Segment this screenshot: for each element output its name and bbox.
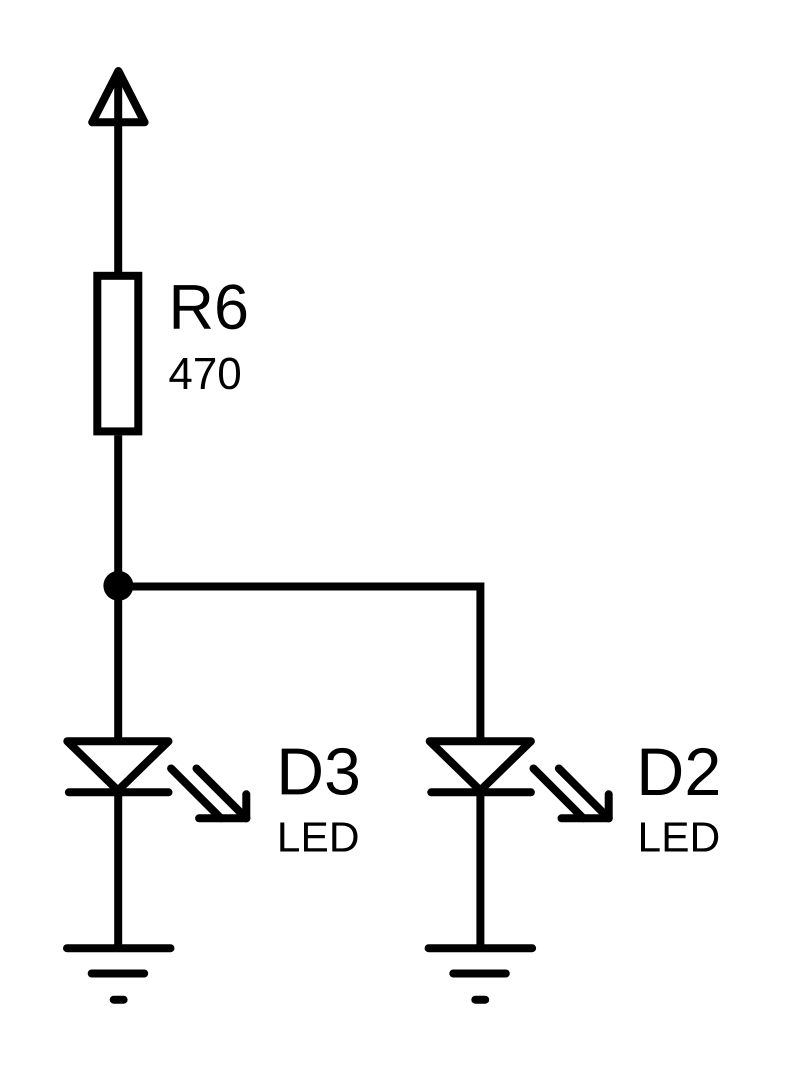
LED D3 triangle: [67, 741, 168, 790]
wire horizontal from junction to D2 branch: [118, 583, 480, 591]
wire from resistor to LED D3 anode: [114, 435, 122, 741]
LED D3 cathode bar: [69, 788, 169, 796]
label D2: [642, 748, 718, 795]
value 470: [169, 358, 240, 390]
label R6: [174, 284, 247, 329]
ground symbol (D2): [429, 948, 532, 1000]
label LED (D3): [280, 823, 357, 852]
wire vertical down to LED D2 anode: [476, 583, 484, 742]
label D3: [282, 748, 358, 795]
wire from power arrow to resistor R6: [114, 71, 122, 276]
power symbol VCC arrow: [92, 71, 144, 122]
label LED (D2): [641, 823, 718, 852]
LED D2 triangle: [430, 741, 531, 790]
wire from LED D3 cathode to ground: [114, 790, 122, 948]
resistor R6 body: [97, 276, 138, 432]
LED D2 light arrows: [534, 769, 609, 819]
wire from LED D2 cathode to ground: [476, 790, 484, 948]
junction node dot: [103, 571, 133, 601]
ground symbol (D3): [67, 948, 171, 1000]
LED D2 cathode bar: [431, 788, 531, 796]
LED D3 light arrows: [171, 769, 246, 819]
